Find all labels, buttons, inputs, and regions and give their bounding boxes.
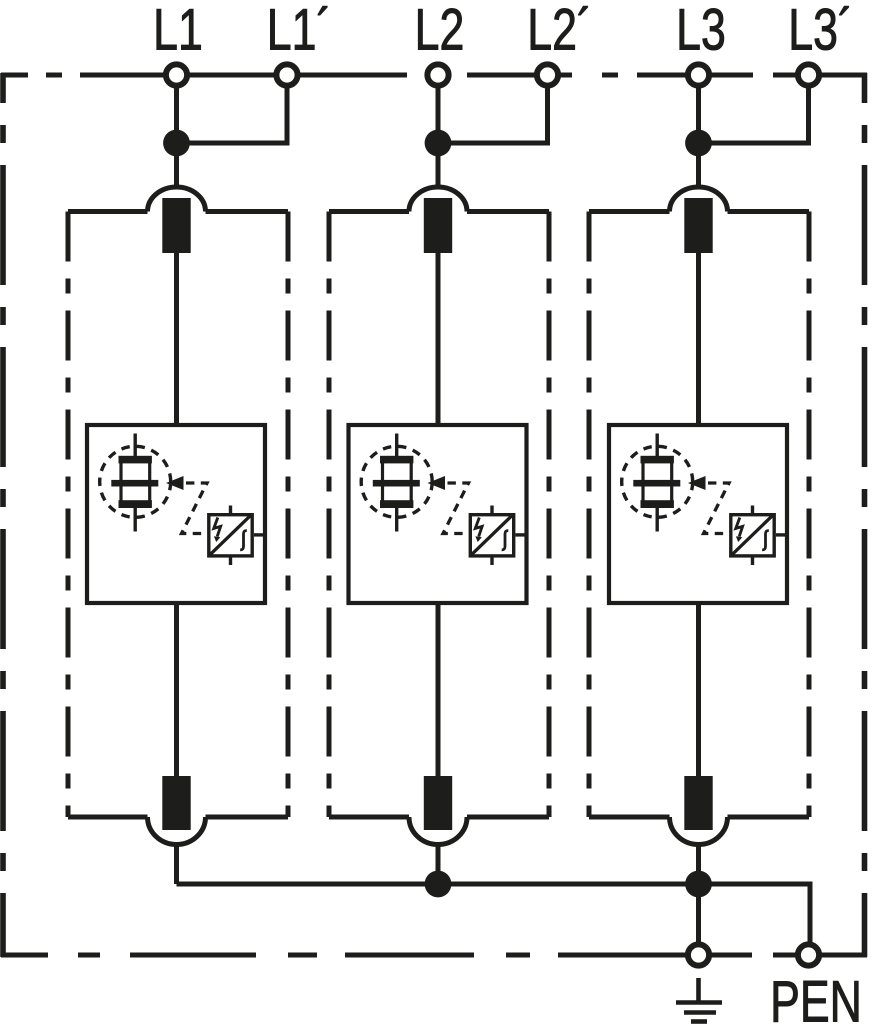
module 3 bottom rail left — [589, 815, 670, 820]
wire bottom contact to PEN bus — [174, 845, 179, 884]
junction node L3 — [685, 130, 712, 157]
terminal L2 — [427, 64, 448, 85]
terminal PEN — [798, 944, 819, 965]
ground symbol bar 3 — [691, 1019, 707, 1024]
module 3 boundary left (dash-dot) — [587, 212, 592, 818]
terminal L3 prime — [798, 64, 819, 85]
module 2 boundary left (dash-dot) — [327, 212, 332, 818]
module 1 bottom rail left — [68, 815, 148, 820]
wire L2 terminal to junction — [436, 75, 441, 143]
module 1 boundary left (dash-dot) — [66, 212, 71, 818]
module 1 top rail right — [206, 209, 289, 214]
wire L1-prime elbow to junction — [177, 75, 288, 143]
module 2 top rail left — [329, 209, 409, 214]
wire L3 terminal to junction — [696, 75, 701, 143]
wire top contact to arrester box — [696, 253, 701, 425]
top plug-in contact module 1 — [148, 187, 206, 253]
ground symbol stem — [696, 978, 701, 1002]
junction node L2 — [425, 130, 452, 157]
wire top contact to arrester box — [436, 253, 441, 425]
top plug-in contact module 3 — [670, 187, 728, 253]
wire arrester box to bottom contact — [696, 603, 701, 778]
wire arrester box to bottom contact — [174, 603, 179, 778]
wire L2-prime elbow to junction — [438, 75, 548, 143]
module 1 boundary right (dash-dot) — [286, 212, 291, 818]
junction node L1 — [163, 130, 190, 157]
terminal earth — [688, 944, 709, 965]
module 3 bottom rail right — [728, 815, 810, 820]
wire junction to top contact — [436, 143, 441, 188]
outer enclosure right border — [862, 73, 868, 957]
svg-text:L2: L2 — [415, 0, 465, 62]
module 1 bottom rail right — [206, 815, 289, 820]
svg-text:L3: L3 — [676, 0, 726, 62]
spark gap symbol module 3 — [622, 434, 788, 566]
wire arrester box to bottom contact — [436, 603, 441, 778]
svg-text:PEN: PEN — [770, 969, 862, 1024]
terminal L1 prime — [276, 64, 297, 85]
wire bottom contact to PEN bus — [436, 845, 441, 884]
module 2 top rail right — [467, 209, 549, 214]
module 2 boundary right (dash-dot) — [547, 212, 552, 818]
bus junction node module 3 — [685, 871, 712, 898]
spark gap symbol module 2 — [361, 434, 527, 566]
top plug-in contact module 2 — [409, 187, 467, 253]
wire junction to top contact — [174, 143, 179, 188]
ground symbol bar 2 — [684, 1010, 716, 1015]
bottom plug-in contact module 1 — [148, 776, 206, 845]
module 1 top rail left — [68, 209, 148, 214]
arrester box module 3 — [609, 425, 787, 603]
bottom plug-in contact module 2 — [409, 776, 467, 845]
arrester box module 2 — [349, 425, 527, 603]
outer enclosure bottom border segments — [1, 953, 867, 958]
arrester box module 1 — [87, 425, 265, 603]
svg-text:L2´: L2´ — [527, 0, 592, 62]
spark gap symbol module 1 — [100, 434, 266, 566]
module 3 top rail left — [589, 209, 670, 214]
wire bottom contact to PEN bus — [696, 845, 701, 884]
wire junction to top contact — [696, 143, 701, 188]
wire top contact to arrester box — [174, 253, 179, 425]
terminal L3 — [688, 64, 709, 85]
wire bus junction to earth terminal — [696, 884, 701, 955]
module 2 bottom rail left — [329, 815, 409, 820]
terminal L2 prime — [537, 64, 558, 85]
wire L3-prime elbow to junction — [699, 75, 809, 143]
module 3 boundary right (dash-dot) — [807, 212, 812, 818]
bus junction node module 2 — [425, 871, 452, 898]
PEN bus wire — [177, 884, 811, 955]
svg-text:L1´: L1´ — [267, 0, 332, 62]
ground symbol bar 1 — [676, 1000, 722, 1005]
outer enclosure left border — [0, 73, 6, 957]
svg-text:L1: L1 — [153, 0, 203, 62]
bottom plug-in contact module 3 — [670, 776, 728, 845]
module 3 top rail right — [728, 209, 810, 214]
svg-text:L3´: L3´ — [788, 0, 853, 62]
wire L1 terminal to junction — [174, 75, 179, 143]
terminal L1 — [166, 64, 187, 85]
module 2 bottom rail right — [467, 815, 549, 820]
outer enclosure top border segments — [1, 73, 867, 78]
